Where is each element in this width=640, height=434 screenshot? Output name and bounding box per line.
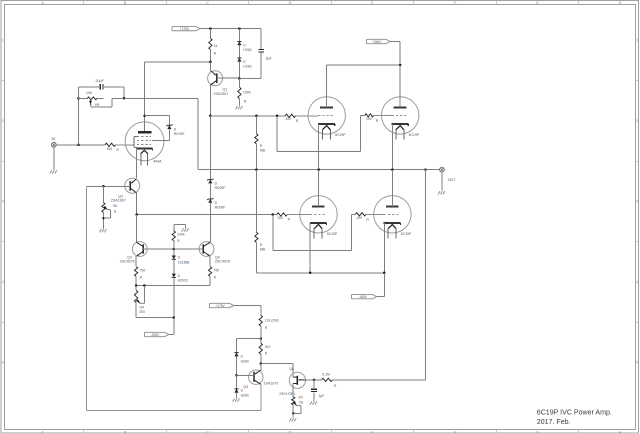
diode D 1S1588 [172,249,190,264]
transistor Q2 2SA1967 [103,178,139,214]
wire grid V3 [296,115,319,117]
svg-text:100: 100 [106,147,112,151]
wire bias diode to ground [236,393,238,398]
svg-text:6C19P: 6C19P [401,232,412,236]
wire IN to R input [56,144,105,146]
diode D H26C (bias lower) [234,375,249,397]
resistor R 750 (Q4 emitter) [208,267,219,286]
svg-text:-200V: -200V [151,333,160,337]
node emitter bus left [135,284,138,287]
svg-text:R: R [214,52,217,56]
connector J1 IN [51,137,56,147]
svg-text:100: 100 [356,216,362,220]
wire grid V6 [366,213,384,215]
svg-text:Q1: Q1 [223,87,228,91]
node V4 cathode [391,168,394,171]
ground (OUT jack) [438,191,445,194]
resistor R 100 (V5 grid) [277,213,291,222]
node B [238,77,241,80]
node rail diode chain [238,27,241,30]
svg-text:G: G [536,1,539,5]
svg-text:Q6: Q6 [289,367,294,371]
resistor R 910 [259,339,270,364]
svg-text:-160V: -160V [358,295,367,299]
svg-text:6C19P: 6C19P [409,133,420,137]
node Q2 base [102,185,105,188]
svg-text:E: E [371,1,374,5]
node VR50 bottom [292,412,295,415]
resistor R 100 (grid stopper 404A) [105,143,119,152]
wire R to 404A grid [116,144,135,146]
wire 240k jog [174,224,186,228]
capacitor 3uF [259,50,273,61]
svg-text:RD09F: RD09F [174,132,185,136]
ground (100k) [236,106,243,109]
wire +175V to 12k [234,306,261,316]
svg-text:RD09F: RD09F [215,186,226,190]
node V3 cathode [317,168,320,171]
node output [424,168,427,171]
svg-text:VR: VR [298,395,303,399]
transistor Q5 2SA1970 [237,364,279,389]
svg-text:+340V: +340V [372,40,382,44]
svg-text:5: 5 [636,361,638,365]
svg-text:6C19P: 6C19P [327,232,338,236]
resistor R 100 (V3 grid) [285,114,299,123]
node -200V [173,316,176,319]
capacitor 1uF (servo) [311,380,324,401]
diode D RD09F (shift 2) [207,198,225,209]
resistor R 1k (plate load) [209,29,218,62]
wire 3uF branch [239,29,261,79]
svg-text:6C19P: 6C19P [335,133,346,137]
wire gate to node [0,0,1,1]
node plate 404A [143,114,146,117]
resistor R 100 (V4 grid) [361,114,379,123]
wire zener to lower node [209,203,211,215]
wire bias feed loop [87,186,261,410]
svg-text:5.1M: 5.1M [322,372,330,376]
power flag +175V (top) [172,26,200,30]
resistor R 240k (bias) [172,224,185,249]
ground (bias diodes) [233,398,240,401]
node bases [173,248,176,251]
svg-text:H26C: H26C [241,359,250,363]
svg-text:H: H [619,430,622,434]
diode D RD09F (shift 1) [207,179,225,190]
node Q5 base [235,374,238,377]
diode D H26C (bias upper) [234,353,249,364]
wire between diodes [238,46,240,58]
svg-text:5: 5 [2,361,4,365]
svg-text:1: 1 [636,39,638,43]
svg-text:910: 910 [265,345,271,349]
svg-text:10k: 10k [86,91,92,95]
resistor R 5.1M (servo) [322,372,337,388]
svg-text:R: R [116,148,119,152]
svg-text:IN: IN [52,137,56,141]
resistor VR 5K (offset adj) [102,186,118,218]
wire cap top path [79,87,125,99]
wire node A [145,61,211,63]
wire diode chain to -200V node [173,278,175,318]
wire emitter bus [136,285,210,287]
svg-text:D: D [289,430,292,434]
wire OUT sleeve [441,172,443,191]
transistor Q1 2SA1967 [208,62,240,116]
resistor VR 50 (source) [292,388,304,413]
svg-text:+175V: +175V [180,27,190,31]
connector J2 OUT [440,167,457,182]
power flag +175V (lower) [210,303,234,307]
svg-text:B: B [124,1,127,5]
svg-text:1S1588: 1S1588 [178,260,190,264]
svg-text:200: 200 [139,310,145,314]
svg-text:A: A [41,430,44,434]
svg-text:20µF: 20µF [96,79,105,83]
svg-text:R: R [244,100,247,104]
resistor R 750 (Q3 emitter) [134,267,145,286]
svg-text:1µF: 1µF [318,394,324,398]
wire 5.1M to gate node [314,379,322,381]
svg-text:240k: 240k [177,233,185,237]
svg-text:100k: 100k [243,91,251,95]
svg-text:2SC4076: 2SC4076 [120,260,135,264]
svg-text:404A: 404A [153,160,162,164]
node wiper tie [143,284,146,287]
node 12k-910 [260,337,263,340]
node branch V4 grid [276,115,279,118]
tube V5 6C19P (lower left) [300,170,338,273]
resistor R 100 (V6 grid) [352,213,370,222]
ground (1uF) [310,401,317,404]
node plate rail [399,64,402,67]
wire output line [198,169,426,171]
svg-text:VR: VR [139,306,144,310]
wire +340V down [390,42,400,66]
power flag -200V [145,332,169,336]
wire feedback left vertical [78,98,80,145]
svg-text:4: 4 [2,280,4,284]
svg-text:5K: 5K [113,204,118,208]
wire cathode down [136,149,138,179]
ground (input jack) [50,170,57,173]
tube V1 404A [125,116,164,166]
wire -200V drop [169,318,174,335]
wire grid V5 [287,214,310,216]
svg-text:VR: VR [95,103,100,107]
wire -200V link [136,317,174,319]
svg-text:50: 50 [300,400,304,404]
svg-text:E: E [371,430,374,434]
resistor R 68k (upper) [255,116,266,170]
resistor VR 200 (tail) [134,286,145,318]
wire V6 grid branch [273,214,352,250]
wire +175V rail [200,28,261,30]
node 68k bottom [255,168,258,171]
node V5 cathode [309,272,312,275]
svg-text:2SA1970: 2SA1970 [264,381,279,385]
svg-text:+175V: +175V [215,304,225,308]
diode D H26C (upper) [237,42,252,53]
node A [209,61,212,64]
tube V3 6C19P (upper left) [308,65,346,170]
svg-text:1k: 1k [214,44,218,48]
transistor Q3 2SC4076 [120,215,174,267]
wire plate rail [327,64,401,66]
wire VR5k to ground [102,217,104,229]
svg-text:750: 750 [214,268,220,272]
svg-text:3µF: 3µF [266,57,273,61]
svg-text:2017. Feb.: 2017. Feb. [537,419,571,426]
node collectors [135,213,138,216]
resistor VR 10k (feedback trim) [79,91,112,107]
ground (VR 5K) [100,229,107,232]
title text [537,410,612,426]
power flag +340V [367,39,391,43]
ground (240k) [182,228,189,231]
wire VR50 to ground [292,405,294,418]
wire lower grid line [210,214,277,216]
diode D H26C2 [172,260,189,283]
svg-text:2SC4076: 2SC4076 [215,260,230,264]
node 910 bottom [260,362,263,365]
node V6 cathode [383,272,386,275]
wire to base node [236,357,238,376]
node feedback left [77,97,80,100]
node 68k top [255,115,258,118]
svg-text:100: 100 [366,117,372,121]
node input junction [77,144,80,147]
svg-text:H26C2: H26C2 [178,278,189,282]
diode D H26C (lower) [237,58,252,69]
wire V4 grid branch [277,115,361,151]
node lower grid branch [272,213,275,216]
svg-text:4: 4 [636,280,638,284]
tube V6 6C19P (lower right) [374,170,412,273]
svg-text:H26C: H26C [243,65,252,69]
svg-text:12k (2W): 12k (2W) [265,319,279,323]
node feedback right [123,97,126,100]
wire servo sense [332,170,425,380]
svg-text:A: A [41,1,44,5]
wire plate to zener [145,116,170,125]
svg-text:68k: 68k [260,149,266,153]
svg-text:750: 750 [140,268,146,272]
svg-text:2: 2 [636,119,638,123]
diode D RD09F (triode strap) [166,124,184,136]
svg-text:6C19P IVC Power Amp.: 6C19P IVC Power Amp. [537,410,612,417]
wire feedback to output sense [124,98,198,169]
svg-text:2SA1967: 2SA1967 [111,199,126,203]
svg-text:RD09F: RD09F [215,205,226,209]
svg-text:3: 3 [2,200,4,204]
wire drain feed [261,364,293,378]
resistor R 12k 2W [259,315,278,338]
wire zener to screen grid [152,129,169,140]
ground (VR 50) [289,418,296,421]
node drive upper [209,115,212,118]
svg-text:C: C [206,430,209,434]
node rail R1k [209,27,212,30]
svg-text:Q5: Q5 [243,385,248,389]
wire collectors node [137,214,211,216]
wire diode chain top [238,29,240,42]
node gate [313,379,316,382]
svg-text:68k: 68k [260,248,266,252]
svg-text:OUT: OUT [448,178,456,182]
wire -160V drop [377,273,385,297]
wire between zeners [209,184,211,199]
svg-text:G: G [536,430,539,434]
wire 10k right to node [112,97,124,99]
wire upper grid line [210,115,285,117]
wire diode chain bottom [238,62,240,79]
svg-text:2: 2 [2,119,4,123]
svg-text:3: 3 [636,200,638,204]
tube V4 6C19P (upper right) [382,65,420,170]
power flag -160V [352,295,377,299]
wire IN jack to ground [53,147,55,170]
transistor Q4 2SC4076 [174,215,230,267]
resistor R 100k (Q1 base) [238,79,251,106]
wire grid V4 [374,114,392,116]
svg-text:1: 1 [2,39,4,43]
svg-text:H: H [619,1,622,5]
svg-text:B: B [124,430,127,434]
svg-text:100: 100 [285,117,291,121]
wire 12k node left [237,339,261,353]
wire Q2 base left [87,185,104,187]
transistor Q6 2SK170BL [279,367,314,396]
wire lower cathode line [256,272,384,274]
resistor R 68k (lower) [255,170,266,273]
svg-text:2SA1967: 2SA1967 [214,92,229,96]
svg-text:C: C [206,1,209,5]
wire zener chain upper [209,116,211,180]
wire to OUT jack [426,169,440,171]
svg-text:D: D [289,1,292,5]
svg-text:H26C: H26C [243,48,252,52]
svg-text:100: 100 [277,216,283,220]
svg-text:H26C: H26C [241,393,250,397]
wire node A to plate [144,62,146,116]
capacitor 20uF [96,79,105,89]
